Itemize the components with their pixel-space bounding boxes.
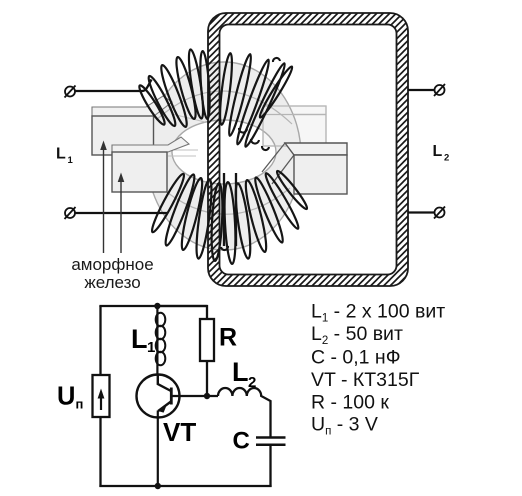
resistor R	[200, 319, 214, 361]
label C	[233, 428, 250, 455]
winding L1 lower arc coil loops	[149, 169, 310, 264]
svg-text:железо: железо	[84, 273, 140, 292]
svg-text:1: 1	[68, 155, 74, 166]
terminal upper-left	[65, 86, 76, 98]
transistor VT	[137, 375, 180, 418]
svg-text:п: п	[76, 397, 84, 412]
lower-left iron plate (front face)	[112, 137, 189, 192]
upper-left iron plate (amorphous iron, front face)	[92, 96, 172, 155]
winding L1 upper arc coil loops	[136, 49, 294, 149]
svg-text:аморфное: аморфное	[71, 255, 153, 274]
toroid core tube (winding body)	[147, 62, 301, 250]
svg-text:U: U	[57, 383, 75, 411]
faint strip edges seen in core window	[168, 114, 205, 156]
wire frame to upper-right terminal	[408, 89, 435, 91]
label VT	[163, 417, 196, 447]
wire from lower-left terminal to winding	[76, 212, 169, 214]
upper-right iron plate (faint, behind core)	[263, 106, 326, 146]
winding tap wires in core window	[224, 173, 236, 246]
inductor L2 (circuit)	[218, 388, 271, 438]
capacitor C	[256, 438, 286, 488]
label R	[219, 324, 237, 352]
svg-text:L: L	[131, 324, 148, 354]
svg-text:R: R	[219, 324, 237, 352]
wire: bottom rail	[99, 485, 271, 487]
upper-right iron plate edges (over core)	[263, 106, 326, 146]
svg-text:L2 - 50 вит: L2 - 50 вит	[311, 323, 403, 347]
node: top junction	[154, 303, 160, 309]
svg-text:L: L	[433, 143, 443, 160]
svg-text:L: L	[56, 146, 66, 163]
inductor L1 (circuit)	[156, 306, 166, 375]
wire: left rail upper	[99, 306, 101, 375]
svg-text:C - 0,1 нФ: C - 0,1 нФ	[311, 347, 401, 369]
wire: top rail	[101, 306, 208, 307]
wire: emitter to bottom rail	[157, 411, 159, 487]
node: base/R junction	[204, 393, 210, 399]
wire frame to lower-right terminal	[408, 211, 435, 213]
wire: top rail to R	[157, 306, 207, 319]
label L1 (left winding)	[56, 146, 74, 167]
annotation text: amorphous iron	[71, 255, 153, 292]
svg-text:2: 2	[248, 374, 256, 391]
label L2 (circuit)	[232, 357, 256, 391]
annotation arrow to upper plate	[100, 141, 107, 254]
label L1 (circuit)	[131, 324, 155, 356]
one-turn frame loop L2 (hatched rounded rectangle)	[208, 13, 408, 286]
label Un	[57, 383, 83, 412]
svg-text:C: C	[233, 428, 250, 455]
svg-text:1: 1	[147, 339, 155, 356]
winding wire tip curls	[221, 58, 280, 250]
svg-text:Uп - 3 V: Uп - 3 V	[311, 414, 378, 438]
wire: left rail lower	[99, 417, 101, 487]
label L2 (right winding)	[433, 143, 450, 164]
svg-text:R - 100 к: R - 100 к	[311, 392, 389, 414]
svg-text:VT: VT	[163, 417, 196, 447]
wire: base to L2	[171, 395, 218, 397]
terminal lower-left	[65, 207, 76, 219]
wire: R to base junction	[206, 361, 208, 396]
svg-text:L: L	[232, 357, 249, 387]
terminal upper-right	[434, 84, 445, 96]
source Un (battery box with arrow)	[93, 375, 110, 417]
annotation arrow to lower plate	[118, 173, 125, 254]
svg-text:2: 2	[444, 153, 449, 164]
lower-right iron plate	[262, 143, 347, 194]
node: bottom junction	[155, 483, 161, 489]
svg-text:VT - КТ315Г: VT - КТ315Г	[311, 369, 420, 391]
terminal lower-right	[434, 207, 445, 219]
wire from upper-left terminal to winding	[76, 80, 152, 92]
svg-text:L1 - 2 x 100 вит: L1 - 2 x 100 вит	[311, 301, 445, 325]
